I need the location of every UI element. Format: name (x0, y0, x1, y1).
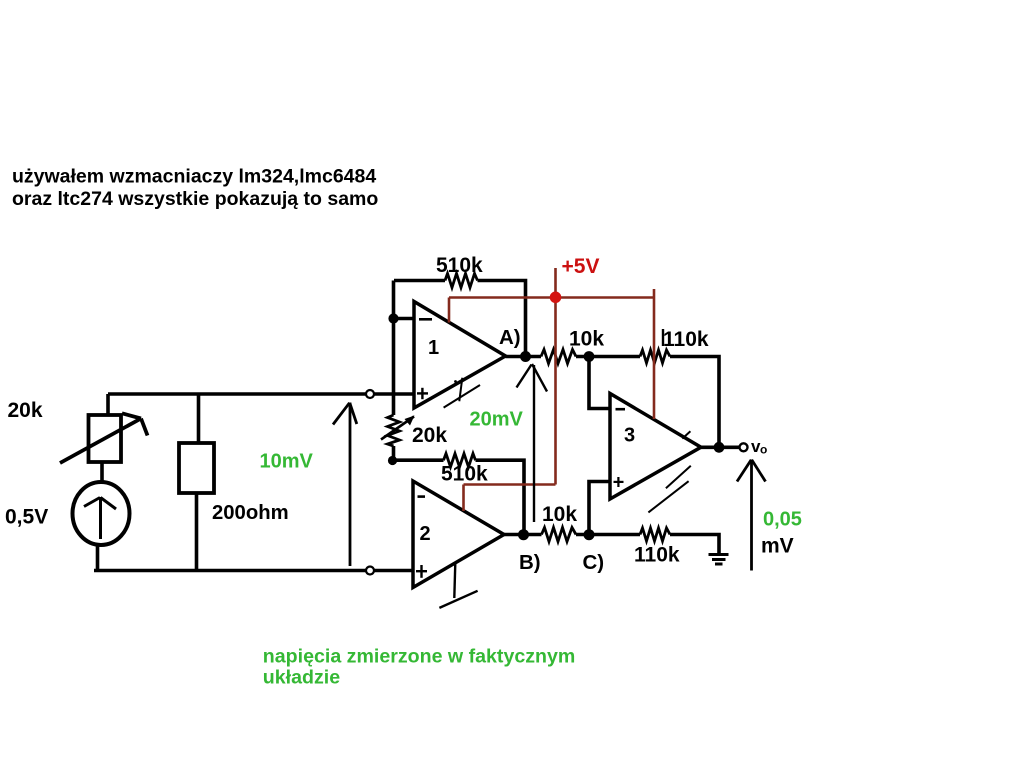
op-amp U2 triangle (413, 481, 504, 588)
resistor 200ohm (rect) (179, 443, 214, 493)
svg-text:10mV: 10mV (260, 451, 314, 473)
wire 510k right + drop (478, 281, 526, 357)
bottom wire (94, 569, 366, 573)
wire 10k to 110k (576, 355, 640, 359)
svg-text:+5V: +5V (562, 255, 600, 278)
wire left drop (106, 394, 110, 416)
wire top-left horizontal (108, 392, 366, 396)
potentiometer 20k (vertical zigzag) (388, 415, 400, 446)
op-amp U3 triangle (610, 394, 701, 500)
arrow through pot 20k (381, 417, 414, 440)
red node dot (550, 292, 562, 304)
wire node to op1 minus (394, 317, 415, 321)
resistor 20k variable (rect) (89, 415, 122, 462)
node B dot (518, 529, 529, 540)
op3 minus sign (616, 408, 626, 411)
note text bottom green (263, 646, 576, 689)
note text top (12, 166, 378, 211)
wire 200ohm bottom (195, 493, 199, 570)
left vertical to inverting node (392, 281, 396, 416)
svg-text:B): B) (519, 551, 541, 574)
svg-text:10k: 10k (569, 328, 604, 351)
output node dot (714, 442, 725, 453)
resistor 110k top (640, 350, 670, 363)
resistor 10k top (541, 350, 576, 364)
svg-text:używałem wzmacniaczy lm324,lmc: używałem wzmacniaczy lm324,lmc6484 (12, 166, 376, 188)
feedback bottom op2: wire node to 510k (393, 458, 444, 462)
op2 minus sign (418, 495, 426, 498)
svg-text:1: 1 (428, 337, 439, 359)
output terminal (open circle) (740, 443, 748, 451)
resistor 10k bottom (542, 528, 577, 542)
hand marks under op3 (648, 431, 690, 512)
svg-text:10k: 10k (542, 503, 577, 526)
node dot op1 inverting (388, 313, 398, 323)
hand marks under op1 (444, 378, 480, 408)
svg-text:3: 3 (624, 425, 635, 447)
node C dot (584, 529, 595, 540)
svg-text:napięcia zmierzone w faktyczny: napięcia zmierzone w faktycznym (263, 646, 576, 668)
node A dot (520, 351, 531, 362)
op2 plus sign (416, 565, 427, 578)
output arrow (737, 460, 766, 571)
hand marks under op2 (439, 563, 477, 608)
tick mark left of 110k (662, 329, 664, 346)
red wire right vertical (653, 289, 656, 419)
svg-text:0,5V: 0,5V (5, 506, 48, 529)
op3 plus sign (614, 477, 624, 487)
svg-text:510k: 510k (441, 463, 488, 486)
wire 110k right + drop to output (670, 357, 719, 448)
wire 200ohm top (197, 394, 201, 444)
arrow 10mV measurement (333, 403, 357, 567)
svg-text:20mV: 20mV (470, 409, 524, 431)
source 0,5V (circle with arrow) (73, 482, 130, 545)
wire op3 tip to output (701, 445, 739, 449)
svg-text:C): C) (583, 551, 605, 574)
red wire vertical main (554, 268, 557, 485)
resistor 110k bottom (640, 528, 670, 541)
arrow 20mV measurement (517, 364, 548, 522)
svg-text:20k: 20k (412, 424, 447, 447)
wire source to bottom (96, 545, 100, 571)
red wire horizontal top (449, 296, 654, 299)
svg-text:o: o (760, 443, 767, 457)
svg-text:2: 2 (420, 523, 431, 545)
node dot 10k/110k junction (584, 351, 595, 362)
wire 10k to 110k bottom (576, 533, 640, 537)
wire op2 tip to 10k (504, 533, 542, 537)
svg-text:510k: 510k (436, 254, 483, 277)
red wire horizontal lower (464, 483, 556, 486)
svg-text:0,05: 0,05 (763, 509, 802, 531)
wire 510k right + drop to node B (476, 460, 525, 534)
branch junction to op3 minus (589, 357, 610, 409)
svg-text:A): A) (499, 326, 521, 349)
feedback top: resistor 510k (394, 279, 445, 283)
op1 plus sign (417, 388, 428, 399)
resistor 510k bottom (444, 454, 476, 468)
red +5V rail (449, 268, 654, 511)
bottom wire terminal to op2 (374, 569, 413, 573)
red wire op2 power pin (462, 485, 465, 512)
op-amp U1 triangle (414, 302, 506, 409)
wire A to 10k (506, 355, 542, 359)
wire terminal to op-amp1 + input (374, 392, 414, 396)
wire pot to node (392, 446, 396, 461)
svg-text:układzie: układzie (263, 667, 340, 689)
red wire op1 power pin (448, 298, 451, 323)
terminal top (open circle) (366, 390, 374, 398)
resistor 510k top zigzag (445, 274, 478, 288)
svg-text:oraz ltc274 wszystkie pokazują: oraz ltc274 wszystkie pokazują to samo (12, 188, 378, 210)
op1 minus sign (419, 318, 432, 321)
wire rect to source (100, 462, 104, 483)
node dot pot bottom (388, 456, 397, 465)
arrow through 20k variable resistor (60, 413, 148, 463)
svg-text:mV: mV (761, 535, 794, 558)
terminal bottom (open circle) (366, 567, 374, 575)
svg-text:200ohm: 200ohm (212, 502, 289, 524)
branch C to op3 plus (589, 482, 610, 535)
svg-text:110k: 110k (663, 328, 709, 351)
svg-text:110k: 110k (634, 544, 680, 567)
wire 110k to ground (670, 535, 719, 555)
ground (709, 555, 729, 565)
svg-text:20k: 20k (8, 399, 43, 422)
